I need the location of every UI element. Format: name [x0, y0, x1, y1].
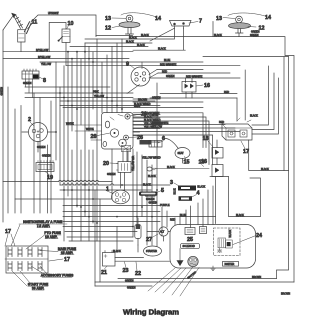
wire band lower-left horizontals	[3, 180, 216, 237]
X connector below cluster	[122, 146, 131, 152]
svg-text:GREEN: GREEN	[1, 87, 4, 96]
svg-text:YELLOW W/R: YELLOW W/R	[132, 155, 135, 171]
svg-text:20: 20	[103, 161, 109, 167]
svg-text:BLACK: BLACK	[129, 37, 137, 40]
svg-text:7: 7	[199, 19, 202, 25]
svg-text:BLACK: BLACK	[167, 166, 175, 169]
leader 3	[174, 183, 180, 187]
svg-text:YELLOW W/RED: YELLOW W/RED	[142, 156, 161, 159]
wire regulator 9 right	[127, 62, 158, 94]
wire seat	[162, 138, 183, 163]
svg-text:RED W/WHITE: RED W/WHITE	[160, 63, 177, 66]
svg-text:8: 8	[43, 78, 46, 84]
svg-text:14: 14	[155, 16, 161, 22]
wire left mid buses	[25, 87, 203, 108]
leader 13 left	[112, 17, 126, 19]
svg-text:B/YELLOW: B/YELLOW	[36, 49, 49, 52]
svg-text:4: 4	[197, 191, 200, 197]
ground in coil box	[217, 248, 221, 253]
oil switch box	[200, 227, 207, 234]
svg-text:RED: RED	[170, 219, 175, 222]
svg-text:BROWN: BROWN	[252, 276, 261, 279]
wire left verticals	[8, 87, 51, 213]
svg-text:RED W/WHITE: RED W/WHITE	[186, 75, 203, 78]
svg-text:BLACK: BLACK	[158, 48, 166, 51]
wire diode16 stubs	[186, 78, 193, 98]
fuel pump 27	[135, 218, 141, 245]
diode unit 18	[212, 140, 223, 165]
leader 18	[208, 141, 213, 147]
leader 2	[30, 122, 34, 126]
svg-text:BLACK: BLACK	[236, 214, 244, 217]
svg-text:26: 26	[91, 134, 97, 140]
svg-text:SOLENOID: SOLENOID	[183, 245, 196, 248]
svg-text:23: 23	[123, 268, 129, 274]
ignition coil 24 dashed	[214, 228, 241, 256]
key holder small	[142, 156, 209, 171]
svg-text:YELLOW: YELLOW	[41, 63, 52, 66]
leader 4	[189, 195, 197, 199]
igniter box	[223, 262, 239, 267]
wire switch right leads	[133, 115, 160, 143]
svg-text:GREEN: GREEN	[166, 75, 175, 78]
svg-text:BLACK: BLACK	[113, 250, 121, 253]
solenoid box	[181, 243, 200, 248]
svg-text:2: 2	[28, 117, 31, 123]
svg-text:GRAY: GRAY	[134, 105, 141, 108]
leader 13 right	[223, 18, 235, 19]
leader 5	[155, 191, 162, 194]
lamp 13 middle	[119, 15, 140, 36]
wire lamp bases black bus	[96, 22, 294, 283]
relay 17	[222, 118, 252, 140]
ignition connector 1	[112, 190, 130, 204]
diode unit 16b	[212, 165, 223, 224]
svg-text:UPRIGHT: UPRIGHT	[48, 12, 59, 15]
leader 26 b	[95, 133, 110, 136]
leader 19	[45, 172, 49, 175]
rectifier plate	[139, 192, 158, 196]
svg-text:13: 13	[105, 16, 111, 22]
connector 19	[36, 161, 54, 172]
wire engine stubs top	[175, 186, 213, 228]
headlight 2	[29, 123, 48, 142]
component 5	[146, 192, 156, 196]
svg-text:3: 3	[170, 180, 173, 186]
svg-text:BLACK: BLACK	[250, 115, 258, 118]
leader 22	[136, 262, 137, 271]
leader 7	[189, 22, 198, 24]
wire band lower verticals	[102, 39, 157, 253]
svg-text:15: 15	[184, 160, 190, 166]
antenna arrow	[3, 13, 23, 30]
wire mid-right band	[133, 99, 240, 165]
wire lower mid verticals	[95, 190, 167, 286]
svg-text:YELLOW: YELLOW	[152, 125, 163, 128]
wire left edge vertical	[2, 30, 4, 222]
wire switch10 top	[49, 23, 66, 52]
svg-text:GREEN: GREEN	[146, 198, 155, 201]
leader 26 c	[129, 136, 138, 139]
wire top-left bus	[31, 15, 96, 37]
leader 20	[110, 162, 118, 165]
leader lines engine bottom	[148, 267, 199, 296]
connector 20	[117, 162, 133, 173]
resistor box	[140, 140, 152, 145]
wire switch11 bottom yellow	[20, 42, 22, 52]
junction dots	[55, 51, 158, 228]
leader 6	[158, 141, 163, 143]
fuse text pto	[26, 231, 62, 249]
leader 17 fuse right	[49, 259, 63, 261]
svg-text:12: 12	[105, 26, 111, 32]
svg-text:Wiring Diagram: Wiring Diagram	[123, 307, 179, 316]
regulator 9	[131, 67, 150, 86]
svg-text:GREEN: GREEN	[37, 146, 46, 149]
svg-text:GREEN: GREEN	[152, 96, 161, 99]
leader 10	[67, 25, 69, 29]
wire right verticals long	[277, 57, 289, 279]
svg-text:17: 17	[64, 257, 70, 263]
svg-text:ACCESSORY FUSES: ACCESSORY FUSES	[41, 274, 74, 278]
svg-text:PINK: PINK	[93, 90, 99, 93]
starter motor M	[188, 256, 198, 266]
svg-text:BLACK: BLACK	[197, 186, 205, 189]
svg-text:24: 24	[256, 233, 262, 239]
fuse text ignition	[11, 220, 67, 246]
svg-text:17: 17	[243, 149, 249, 155]
leader 1	[106, 191, 113, 194]
svg-text:BLACK: BLACK	[141, 34, 149, 37]
fuse box 17	[5, 246, 48, 273]
svg-text:BLACK: BLACK	[137, 44, 145, 47]
leader 12 right	[248, 26, 256, 29]
wire black bus rows	[70, 39, 152, 47]
leader 14 right arc	[228, 13, 265, 16]
switch 11	[18, 22, 31, 42]
lamp 13 right	[229, 16, 251, 36]
svg-text:16: 16	[204, 83, 210, 89]
svg-text:25: 25	[187, 237, 193, 243]
alternator	[159, 227, 168, 236]
wire right mid buses	[133, 50, 240, 78]
wire cluster to 20	[121, 152, 129, 191]
leader 9	[130, 65, 135, 69]
svg-text:7.5 AMP.: 7.5 AMP.	[37, 224, 51, 228]
wire byellow buses	[3, 43, 240, 66]
leader 11	[27, 24, 32, 29]
svg-text:BLUE: BLUE	[174, 188, 177, 195]
svg-text:GREEN: GREEN	[149, 201, 158, 204]
leader 16	[196, 85, 203, 86]
svg-text:19: 19	[47, 175, 53, 181]
svg-text:RED: RED	[219, 121, 224, 124]
fuse text accessory	[31, 266, 74, 278]
svg-text:10 AMP.: 10 AMP.	[45, 235, 58, 239]
svg-text:GREEN: GREEN	[125, 280, 134, 283]
leader 12 left	[112, 26, 120, 28]
svg-text:GREEN: GREEN	[250, 34, 259, 37]
leader 23	[125, 262, 127, 268]
fuse text start	[12, 271, 49, 290]
svg-text:GREEN: GREEN	[127, 287, 136, 290]
leader 17 fuse left	[5, 234, 15, 246]
svg-text:BLACK: BLACK	[143, 184, 151, 187]
component 3	[178, 186, 196, 191]
svg-text:STARTER: STARTER	[146, 250, 157, 253]
svg-text:GREEN: GREEN	[23, 82, 32, 85]
leader 24	[233, 236, 256, 245]
svg-text:RED: RED	[224, 91, 229, 94]
svg-text:GREEN: GREEN	[107, 173, 116, 176]
switch 10	[58, 29, 70, 43]
svg-text:BLACK: BLACK	[229, 229, 232, 237]
svg-text:13: 13	[216, 16, 222, 22]
svg-text:21: 21	[101, 270, 107, 276]
svg-text:14: 14	[265, 15, 271, 21]
svg-text:RED: RED	[162, 70, 167, 73]
svg-text:BLACK: BLACK	[148, 175, 156, 178]
svg-text:BLUE: BLUE	[152, 114, 159, 117]
svg-text:11: 11	[32, 20, 38, 26]
svg-text:5: 5	[161, 188, 164, 194]
engine block outline	[170, 225, 256, 269]
fuse connector 8	[22, 69, 39, 79]
svg-text:30 AMP.: 30 AMP.	[32, 286, 45, 290]
fuse text main	[40, 247, 77, 255]
svg-text:B/YELLOW: B/YELLOW	[38, 56, 51, 59]
svg-text:BLUE: BLUE	[164, 59, 171, 62]
horn 7	[170, 21, 192, 29]
component 4	[179, 196, 193, 201]
seat switch	[175, 148, 190, 159]
svg-text:27: 27	[146, 237, 152, 243]
svg-text:ALT: ALT	[160, 231, 165, 234]
svg-text:9: 9	[126, 62, 129, 68]
svg-text:15 AMP.: 15 AMP.	[61, 251, 74, 255]
leader 27 top	[152, 234, 158, 238]
leader 8	[39, 77, 43, 79]
svg-text:PURPLE: PURPLE	[160, 204, 170, 207]
svg-text:YELLOW: YELLOW	[94, 95, 105, 98]
svg-text:22: 22	[135, 271, 141, 277]
fuel sensor box	[185, 228, 195, 235]
wire right horizontals	[150, 57, 289, 98]
wire battery to starter	[115, 245, 170, 261]
key switch cluster 26	[102, 113, 134, 150]
wire headlight 2	[22, 132, 56, 152]
svg-text:BLACK: BLACK	[214, 34, 222, 37]
wire horn pins down	[130, 28, 184, 50]
svg-text:IGNITER: IGNITER	[225, 263, 235, 266]
ground engine mid	[211, 266, 215, 271]
svg-text:BROWN: BROWN	[281, 293, 290, 296]
svg-text:18: 18	[203, 136, 209, 142]
wire right area verticals	[237, 57, 284, 171]
battery 21	[103, 251, 116, 267]
wire right lower structure	[210, 140, 289, 217]
leader 17 relay	[241, 141, 245, 149]
wire alternator leads	[147, 232, 170, 242]
connector 6	[149, 141, 162, 148]
leader 21	[104, 266, 107, 270]
svg-text:BLACK: BLACK	[126, 40, 134, 43]
leader 14 left arc	[121, 13, 155, 17]
leader 26 a	[130, 114, 141, 116]
diode unit 16	[182, 82, 196, 93]
wire lower mid horizontals	[69, 241, 294, 286]
ground under solenoid	[177, 249, 183, 266]
svg-text:GREEN: GREEN	[42, 155, 51, 158]
starter	[144, 246, 162, 256]
wire mid-left verticals	[56, 39, 97, 241]
svg-text:SEAT: SEAT	[178, 152, 185, 155]
svg-text:BLACK: BLACK	[261, 168, 269, 171]
